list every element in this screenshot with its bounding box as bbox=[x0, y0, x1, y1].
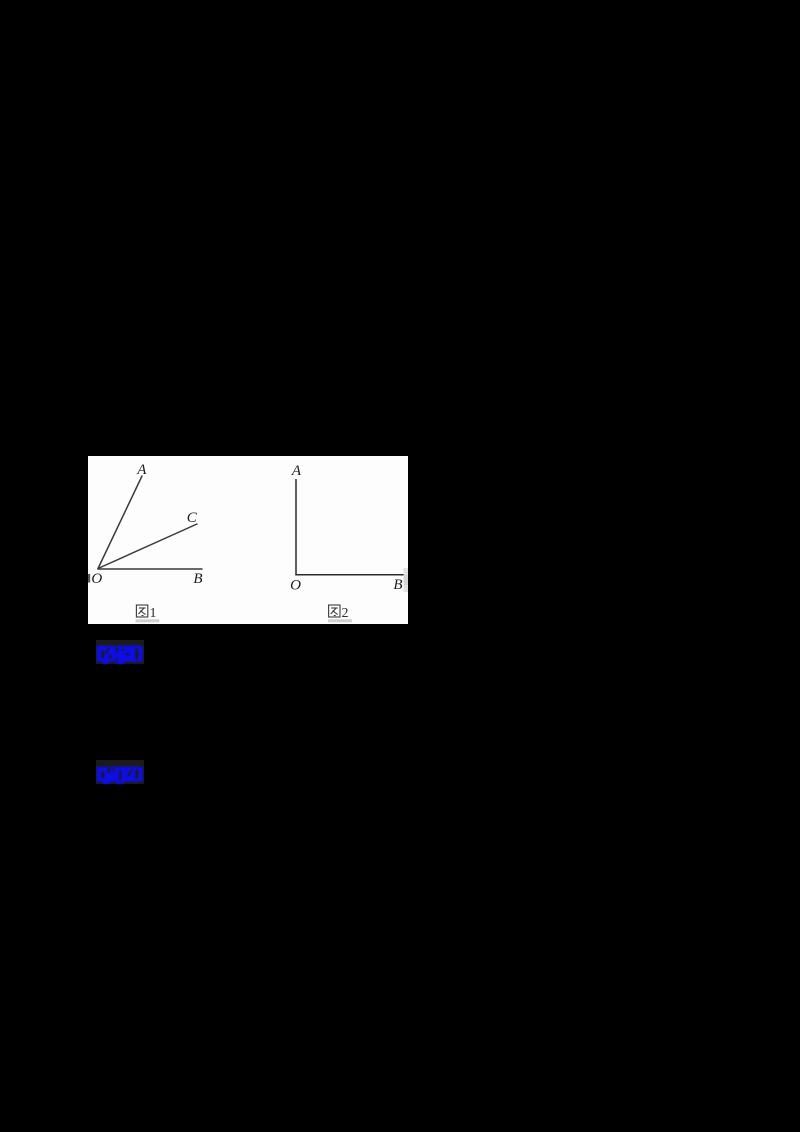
svg-text:2: 2 bbox=[342, 606, 349, 621]
svg-text:A: A bbox=[136, 462, 147, 478]
svg-text:A: A bbox=[291, 463, 302, 479]
svg-text:B: B bbox=[193, 571, 202, 587]
svg-text:O: O bbox=[91, 571, 102, 587]
svg-text:O: O bbox=[290, 578, 301, 594]
svg-text:1: 1 bbox=[150, 606, 157, 621]
svg-text:B: B bbox=[393, 577, 402, 593]
svg-text:C: C bbox=[187, 510, 198, 526]
